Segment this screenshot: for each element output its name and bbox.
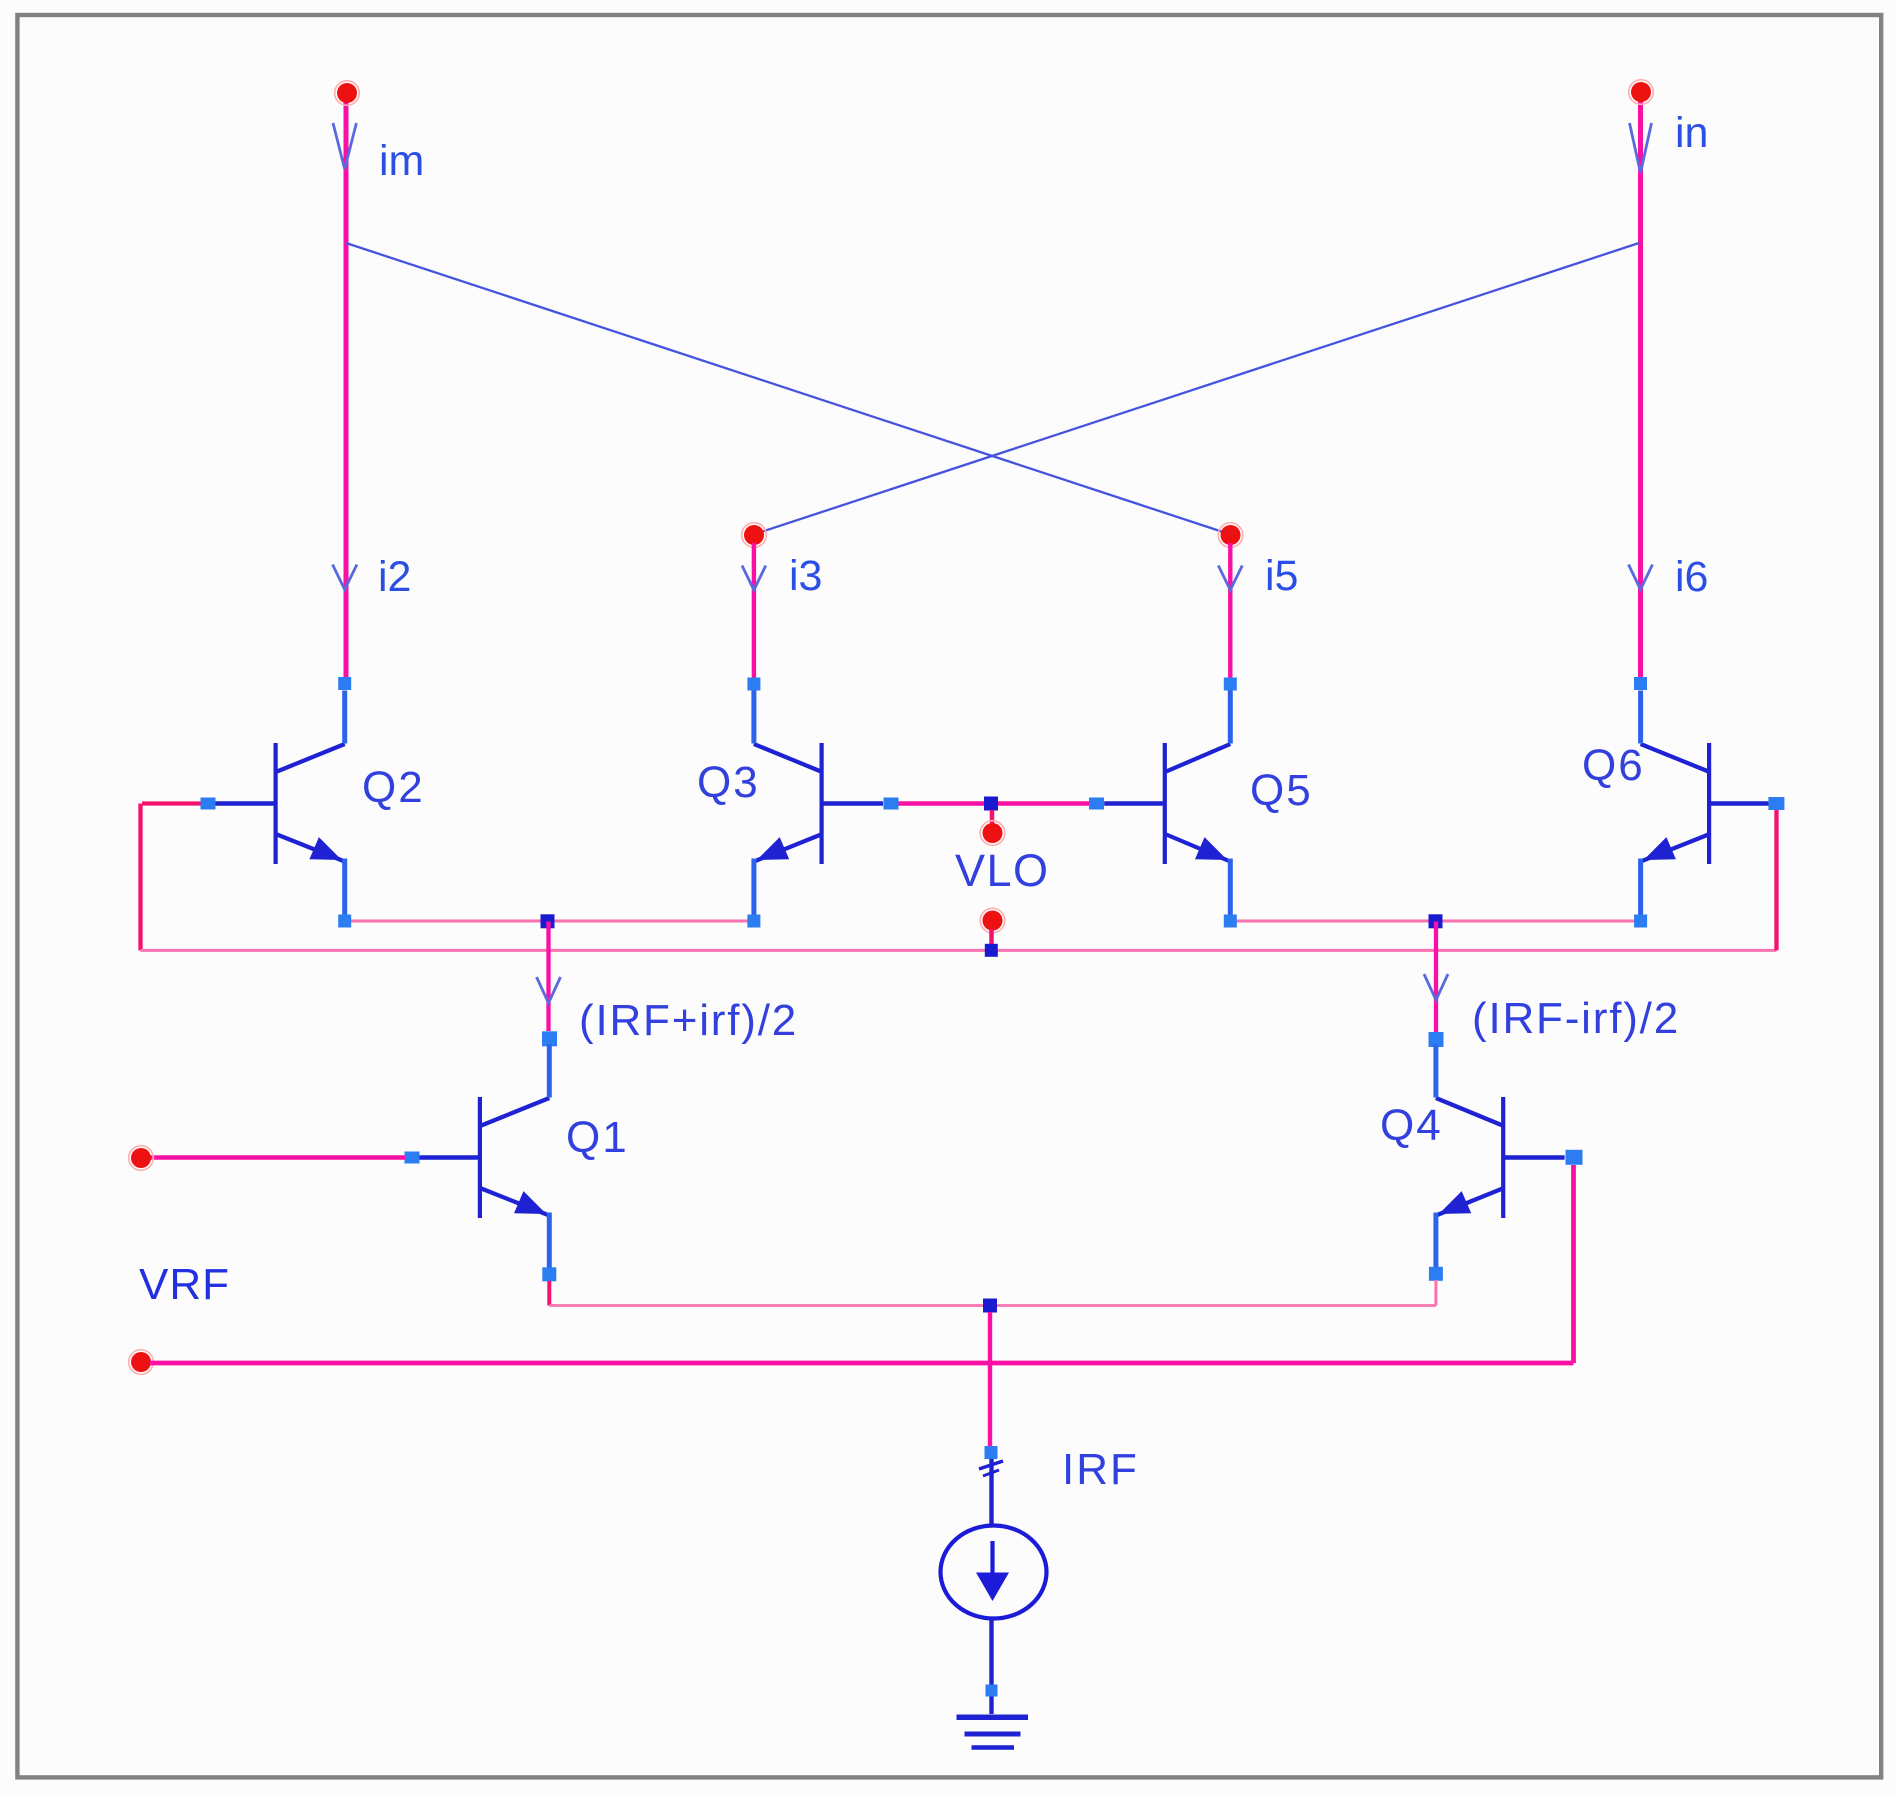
wire Q1 emitter down bbox=[547, 1281, 551, 1306]
junction VLO- center bbox=[985, 944, 998, 957]
node VRF- terminal bbox=[129, 1350, 154, 1375]
svg-text:Q1: Q1 bbox=[566, 1113, 629, 1162]
wire in vertical bbox=[1638, 97, 1643, 678]
node Q5 emitter pin bbox=[1224, 915, 1237, 928]
node im terminal bbox=[335, 81, 360, 106]
node Q5 collector pin bbox=[1224, 678, 1237, 691]
current arrow i6 bbox=[1629, 565, 1653, 590]
node i5 terminal bbox=[1218, 523, 1243, 548]
wire into current source bbox=[989, 1459, 993, 1526]
node Q3 collector pin bbox=[747, 678, 760, 691]
ground bbox=[957, 1717, 1029, 1747]
svg-text:Q3: Q3 bbox=[697, 758, 760, 807]
svg-text:(IRF-irf)/2: (IRF-irf)/2 bbox=[1472, 994, 1680, 1043]
node Q1 collector pin bbox=[542, 1031, 557, 1046]
node IRF pin bbox=[985, 1446, 998, 1459]
svg-text:VRF: VRF bbox=[139, 1260, 230, 1309]
node i3 terminal bbox=[742, 523, 767, 548]
wire VLO+ stub down bbox=[990, 810, 995, 826]
current arrow in bbox=[1630, 123, 1652, 173]
node Q6 collector pin bbox=[1634, 677, 1647, 690]
node VRF+ terminal bbox=[129, 1146, 154, 1171]
transistor Q4 bbox=[1436, 1045, 1565, 1270]
wire tail to current source bbox=[988, 1312, 992, 1447]
svg-text:i6: i6 bbox=[1675, 553, 1708, 601]
svg-text:IRF: IRF bbox=[1062, 1445, 1139, 1494]
node in terminal bbox=[1629, 80, 1654, 105]
wire current source to ground bbox=[989, 1619, 993, 1715]
pin arrow Q5 base bbox=[1089, 798, 1104, 810]
wire (IRF+irf)/2 bbox=[546, 922, 550, 1032]
svg-text:VLO: VLO bbox=[955, 845, 1050, 896]
svg-text:im: im bbox=[379, 137, 424, 185]
junction VLO+ center bbox=[984, 797, 998, 811]
transistor Q1 bbox=[419, 1045, 549, 1270]
wire Q4 emitter horizontal bbox=[990, 1304, 1436, 1307]
svg-text:in: in bbox=[1675, 109, 1708, 157]
wire Q2-Q3 emitters bbox=[345, 920, 754, 923]
node Q1 emitter pin bbox=[542, 1267, 556, 1281]
current arrow i5 bbox=[1218, 566, 1242, 591]
node Q2 emitter pin bbox=[338, 915, 351, 928]
wire cross-couple im to i5 bbox=[346, 243, 1229, 534]
node Q6 emitter pin bbox=[1634, 915, 1647, 928]
svg-text:Q2: Q2 bbox=[362, 763, 425, 812]
svg-text:i5: i5 bbox=[1265, 552, 1298, 600]
transistor Q5 bbox=[1104, 691, 1230, 916]
transistor Q2 bbox=[215, 691, 345, 916]
wire i5 vertical bbox=[1228, 543, 1232, 678]
svg-text:Q4: Q4 bbox=[1380, 1101, 1443, 1150]
svg-text:i2: i2 bbox=[378, 553, 411, 601]
svg-text:Q5: Q5 bbox=[1250, 766, 1313, 815]
current arrow (IRF-irf)/2 bbox=[1424, 974, 1448, 1000]
junction left emitter pair bbox=[541, 914, 555, 928]
svg-text:Q6: Q6 bbox=[1582, 741, 1645, 790]
transistor Q6 bbox=[1641, 691, 1771, 916]
current arrow i2 bbox=[333, 565, 357, 590]
wire VLO- stub down bbox=[989, 929, 994, 944]
node Q4 collector pin bbox=[1429, 1032, 1444, 1047]
wire VRF- vertical to Q4 base bbox=[1571, 1165, 1576, 1363]
current arrow i3 bbox=[742, 566, 766, 591]
wire VLO- left vertical bbox=[138, 804, 142, 951]
wire VLO- horizontal bbox=[141, 949, 1777, 952]
wire cross-couple in to i3 bbox=[755, 243, 1639, 534]
wire VRF- horizontal bbox=[150, 1361, 1574, 1366]
wire VLO+ Q3 base to Q5 base bbox=[899, 801, 1090, 806]
node Q4 emitter pin bbox=[1429, 1267, 1443, 1281]
transistor Q3 bbox=[754, 691, 883, 916]
pin arrow Q1 base bbox=[405, 1152, 420, 1164]
node Q2 collector pin bbox=[338, 677, 351, 690]
current source IRF bbox=[941, 1526, 1047, 1619]
wire Q2 base pink segment bbox=[142, 801, 201, 805]
wire break ticks bbox=[979, 1461, 1003, 1469]
node Q3 emitter pin bbox=[747, 915, 760, 928]
node Q4 base pin bbox=[1566, 1150, 1583, 1165]
svg-text:i3: i3 bbox=[789, 552, 822, 600]
junction right emitter pair bbox=[1429, 914, 1443, 928]
svg-text:(IRF+irf)/2: (IRF+irf)/2 bbox=[579, 996, 798, 1045]
current arrow (IRF+irf)/2 bbox=[537, 977, 561, 1003]
node VLO+ terminal bbox=[980, 821, 1005, 846]
current arrow im bbox=[333, 123, 356, 169]
wire i3 vertical bbox=[752, 543, 756, 678]
node ground pin bbox=[986, 1685, 998, 1697]
wire VLO- right vertical bbox=[1774, 810, 1778, 950]
wire Q1 emitter horizontal bbox=[549, 1304, 990, 1307]
pin arrow Q3 base bbox=[884, 798, 899, 810]
wire (IRF-irf)/2 bbox=[1434, 922, 1438, 1033]
pin arrow Q2 base bbox=[201, 798, 216, 810]
node Q6 base pin bbox=[1768, 797, 1784, 810]
wire im vertical bbox=[344, 97, 349, 678]
wire VRF+ to Q1 base bbox=[150, 1155, 405, 1160]
junction tail node bbox=[983, 1299, 997, 1313]
node VLO- terminal bbox=[980, 908, 1005, 933]
wire Q4 emitter down bbox=[1434, 1280, 1437, 1306]
wire Q5-Q6 emitters bbox=[1230, 920, 1640, 923]
